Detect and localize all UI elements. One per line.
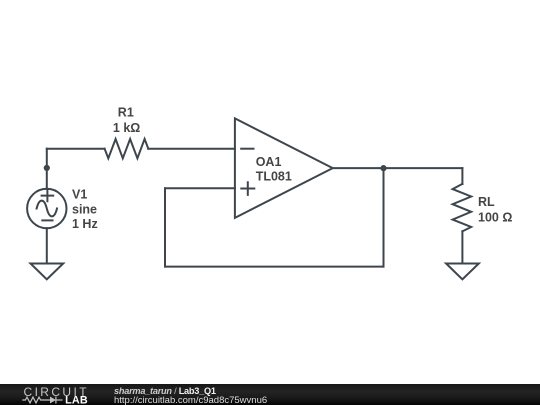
svg-text:TL081: TL081: [256, 169, 292, 183]
V1 plus sign: [42, 190, 54, 201]
svg-text:V1: V1: [72, 188, 87, 202]
wire RL bottom lead to ground: [461, 231, 463, 263]
svg-text:R1: R1: [118, 106, 134, 120]
CircuitLab logo circuit glyph (resistor and diode): [22, 397, 62, 404]
ground symbol under V1: [31, 264, 64, 280]
svg-text:sine: sine: [72, 202, 97, 216]
wire V1 top lead (vertical): [46, 149, 48, 189]
svg-text:http://circuitlab.com/c9ad8c75: http://circuitlab.com/c9ad8c75wvnu6: [114, 395, 267, 405]
svg-text:100 Ω: 100 Ω: [478, 211, 512, 225]
ground symbol under RL: [446, 264, 479, 280]
op-amp OA1 triangle: [235, 118, 333, 217]
voltage source V1 circle: [27, 189, 66, 228]
wire feedback left vertical: [164, 188, 166, 266]
V1 minus sign: [42, 219, 52, 221]
svg-text:OA1: OA1: [256, 155, 282, 169]
OA1 non-inverting pin plus sign: [241, 182, 254, 195]
node junction dot at OA1 output: [380, 165, 386, 171]
resistor RL: [453, 184, 472, 231]
svg-text:1 kΩ: 1 kΩ: [113, 121, 140, 135]
wire output node down to RL: [461, 168, 463, 184]
wire V1 bottom lead to ground: [46, 228, 48, 263]
svg-text:RL: RL: [478, 195, 495, 209]
OA1 inverting pin minus sign: [241, 148, 253, 150]
wire feedback right vertical up to output node: [383, 168, 385, 266]
resistor R1: [105, 139, 149, 158]
wire feedback: non-inverting input to left: [165, 187, 235, 189]
svg-text:LAB: LAB: [65, 394, 88, 405]
wire OA1 output to node: [333, 167, 463, 169]
node junction dot at V1 positive terminal: [44, 165, 50, 171]
footer black bar: [0, 384, 540, 405]
wire feedback bottom horizontal: [165, 266, 384, 268]
wire R1 to OA1 inverting input: [148, 148, 235, 150]
svg-text:1 Hz: 1 Hz: [72, 217, 98, 231]
wire from V1 positive node to R1 (horizontal): [47, 148, 105, 150]
V1 sine symbol: [37, 201, 57, 217]
CircuitLab logo diode triangle: [50, 397, 56, 404]
